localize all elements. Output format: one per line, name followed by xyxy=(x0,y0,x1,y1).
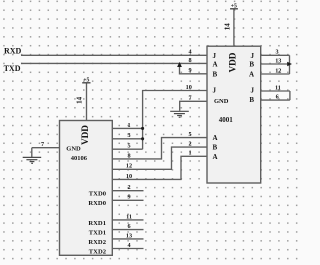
svg-text:6: 6 xyxy=(276,94,279,101)
svg-text:TXD1: TXD1 xyxy=(89,230,106,237)
svg-text:A: A xyxy=(213,134,218,142)
svg-text:VDD: VDD xyxy=(227,52,237,72)
svg-text:J: J xyxy=(251,86,255,94)
svg-text:14: 14 xyxy=(75,96,83,104)
svg-text:TXD: TXD xyxy=(4,64,21,73)
svg-text:TXD2: TXD2 xyxy=(89,248,107,255)
svg-text:9: 9 xyxy=(127,194,130,201)
svg-text:J: J xyxy=(251,52,255,60)
svg-text:12: 12 xyxy=(275,67,281,74)
svg-text:B: B xyxy=(249,61,254,69)
svg-text:3: 3 xyxy=(127,132,130,139)
svg-text:2: 2 xyxy=(188,141,191,148)
svg-text:B: B xyxy=(213,144,218,152)
svg-text:4: 4 xyxy=(188,49,191,56)
svg-text:RXD1: RXD1 xyxy=(88,220,106,227)
svg-text:1: 1 xyxy=(188,150,191,157)
svg-text:A: A xyxy=(213,153,218,161)
svg-text:B: B xyxy=(213,71,218,79)
svg-text:VDD: VDD xyxy=(80,125,90,145)
svg-text:4001: 4001 xyxy=(219,116,234,124)
svg-text:A: A xyxy=(249,71,254,79)
svg-text:A: A xyxy=(213,61,218,69)
svg-text:GND: GND xyxy=(214,98,229,105)
svg-text:J: J xyxy=(213,86,217,94)
svg-text:10: 10 xyxy=(126,173,132,180)
svg-text:B: B xyxy=(249,96,254,104)
svg-text:14: 14 xyxy=(223,23,231,31)
svg-text:3: 3 xyxy=(275,49,278,56)
svg-text:+5: +5 xyxy=(231,3,237,9)
svg-text:RXD0: RXD0 xyxy=(88,200,106,207)
svg-text:RXD2: RXD2 xyxy=(88,239,106,246)
svg-text:J: J xyxy=(213,52,217,60)
svg-text:11: 11 xyxy=(275,84,281,91)
svg-text:9: 9 xyxy=(188,67,191,74)
svg-text:2: 2 xyxy=(127,184,130,191)
svg-text:1: 1 xyxy=(127,122,130,129)
svg-text:13: 13 xyxy=(126,232,132,239)
svg-text:5: 5 xyxy=(188,131,191,138)
svg-text:TXD0: TXD0 xyxy=(89,191,107,198)
svg-text:4: 4 xyxy=(127,242,130,249)
svg-text:7: 7 xyxy=(41,141,44,148)
svg-text:7: 7 xyxy=(188,95,191,102)
svg-text:GND: GND xyxy=(66,145,81,152)
svg-text:8: 8 xyxy=(127,152,130,159)
svg-text:10: 10 xyxy=(186,84,192,91)
svg-text:40106: 40106 xyxy=(71,155,88,162)
svg-text:12: 12 xyxy=(126,163,132,170)
svg-text:11: 11 xyxy=(126,213,132,220)
svg-text:6: 6 xyxy=(127,223,130,230)
svg-text:8: 8 xyxy=(188,57,191,64)
svg-text:RXD: RXD xyxy=(4,46,22,55)
svg-text:+5: +5 xyxy=(83,77,89,83)
svg-text:13: 13 xyxy=(275,57,281,64)
svg-text:5: 5 xyxy=(127,143,130,150)
